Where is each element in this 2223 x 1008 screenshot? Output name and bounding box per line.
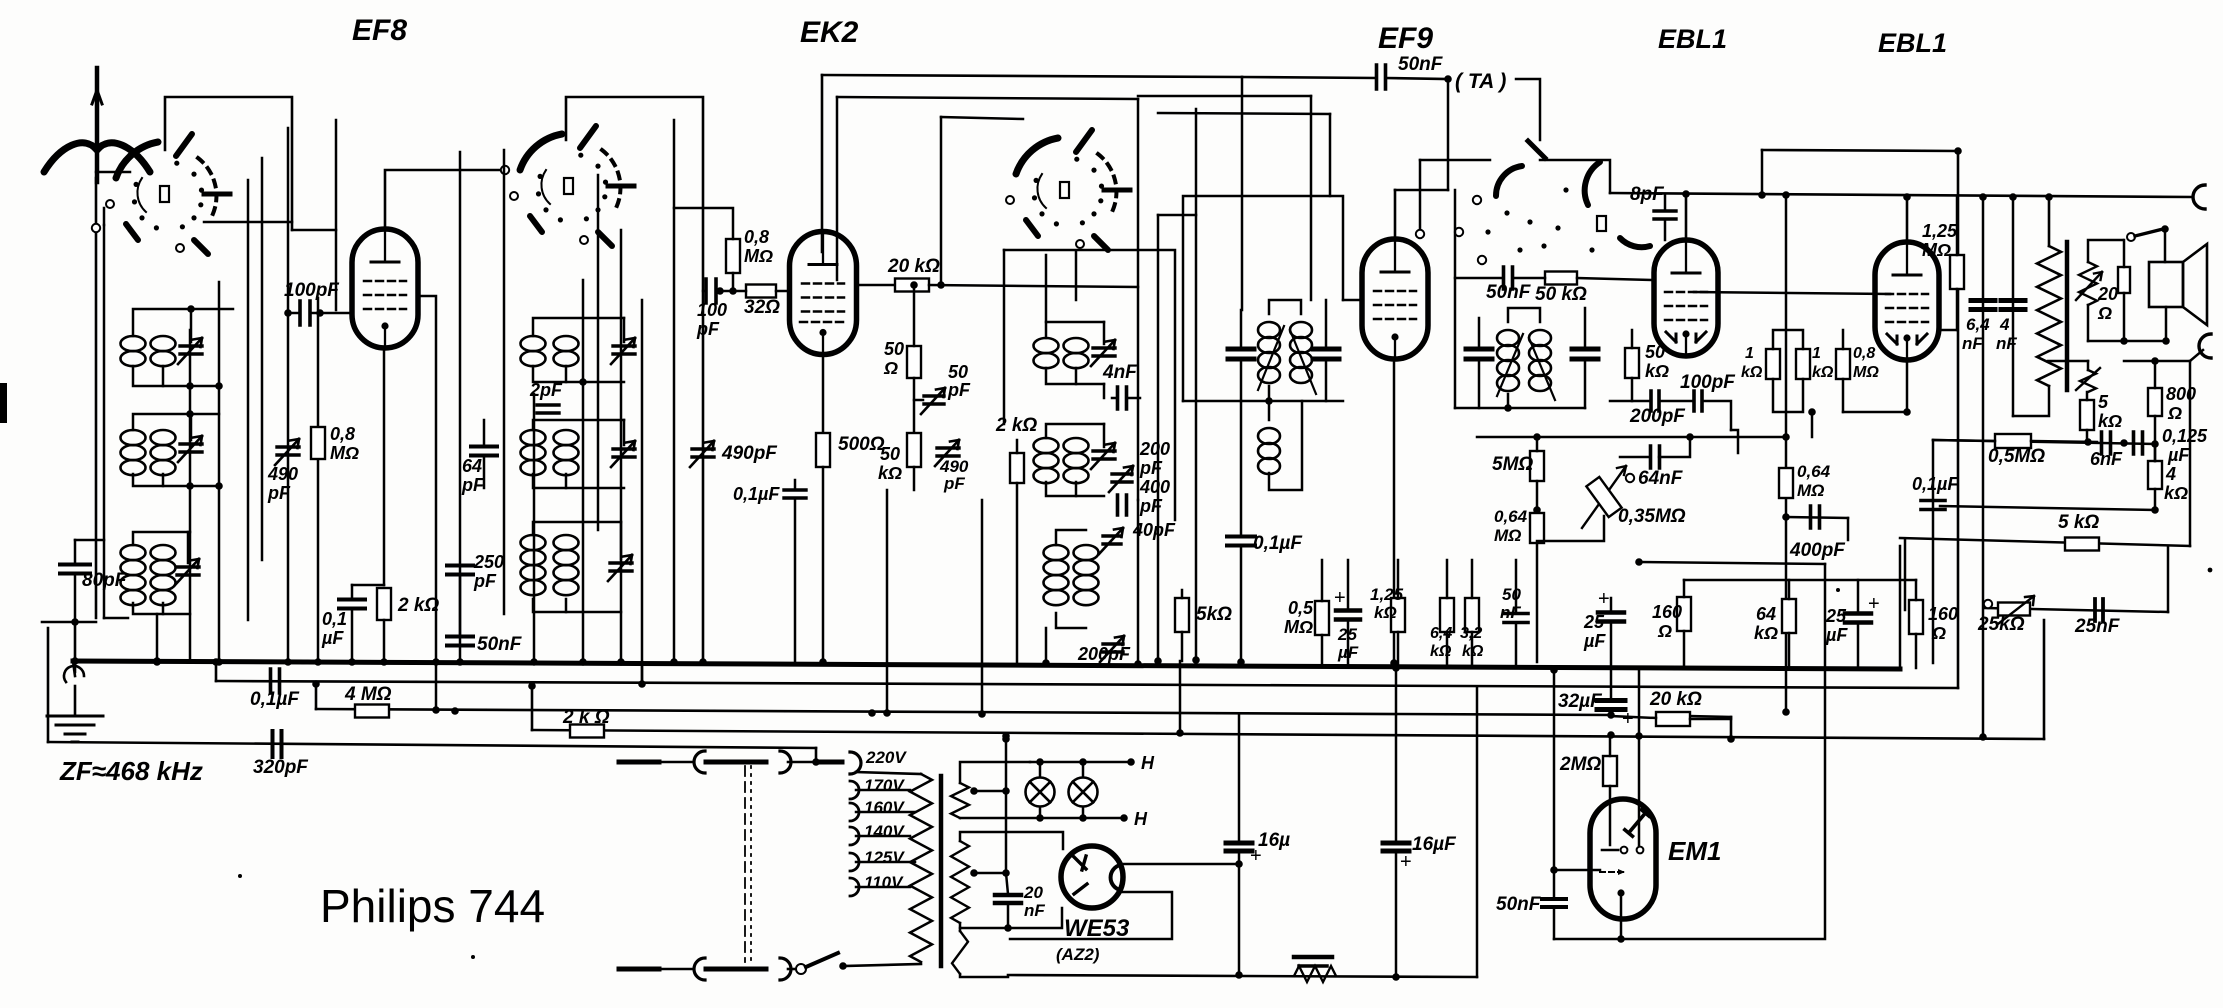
wire v x318 bbox=[317, 298, 320, 662]
junction bus bbox=[215, 658, 223, 666]
wire det line bbox=[1610, 400, 1651, 403]
svg-text:+: + bbox=[1868, 593, 1880, 615]
svg-text:2pF: 2pF bbox=[529, 380, 563, 400]
svg-text:+: + bbox=[1250, 845, 1262, 867]
svg-text:+: + bbox=[1598, 588, 1610, 610]
svg-text:20 kΩ: 20 kΩ bbox=[887, 256, 940, 277]
transformer core main bbox=[939, 776, 944, 966]
IF coil L5b bbox=[554, 430, 579, 445]
capacitor ift3 left bbox=[1466, 349, 1492, 359]
mains upper stub bbox=[619, 760, 659, 765]
wire v1762 bbox=[1761, 150, 1764, 195]
resistor 1kOhm a bbox=[1766, 349, 1780, 379]
svg-text:400: 400 bbox=[1139, 477, 1170, 497]
wire y442 left bbox=[1933, 440, 1995, 441]
junction bus bbox=[153, 658, 161, 666]
trimmer 200pF pad bbox=[1103, 644, 1123, 652]
trimmer C8 bbox=[1093, 451, 1115, 459]
junction railC left bbox=[312, 680, 320, 688]
wire em1 left link bbox=[1554, 869, 1600, 872]
wire v x248 bbox=[247, 180, 250, 620]
svg-text:nF: nF bbox=[1962, 334, 1983, 353]
IF coil L4b bbox=[554, 336, 579, 351]
wire EF9 anode up bbox=[1394, 190, 1397, 239]
wire 100pF right bbox=[311, 312, 352, 315]
svg-text:kΩ: kΩ bbox=[2164, 483, 2188, 503]
wire gb down bbox=[1811, 412, 1814, 437]
wire v2155 seg bbox=[2154, 444, 2157, 461]
wire em1 left v bbox=[1553, 670, 1556, 898]
wire top to 50nF bbox=[1242, 77, 1376, 78]
variable coil ift3 b bbox=[1529, 330, 1551, 346]
wire v1786 bbox=[1785, 194, 1788, 712]
terminal pot bbox=[1984, 600, 1992, 608]
svg-text:80pF: 80pF bbox=[82, 570, 128, 591]
junction y150 1958 bbox=[1954, 147, 1962, 155]
svg-text:kΩ: kΩ bbox=[1374, 603, 1397, 622]
wire row2 bottom bbox=[133, 474, 219, 486]
junction v1983 y737 bbox=[1979, 733, 1987, 741]
antenna bbox=[44, 143, 97, 172]
wire x642 to railB bbox=[641, 662, 644, 684]
resistor WW bbox=[1294, 955, 1332, 960]
wire lamp bots bbox=[1039, 807, 1042, 818]
ground bbox=[47, 716, 103, 742]
junction x1158 bbox=[1154, 657, 1162, 665]
junction railB x645b bbox=[868, 709, 876, 717]
trimmer C4 bbox=[613, 346, 635, 354]
capacitor 25nF bbox=[2095, 599, 2103, 621]
junction tap20 bbox=[1002, 869, 1010, 877]
wire 4nF link bbox=[1103, 384, 1106, 398]
capacitor 25uF a bbox=[1336, 611, 1360, 620]
wire row2 trim lead bbox=[190, 414, 193, 440]
svg-text:0,125: 0,125 bbox=[2162, 426, 2208, 446]
tube EF9 bbox=[1362, 239, 1428, 359]
mains thick link bbox=[818, 760, 842, 765]
IF coil L6a bbox=[521, 535, 546, 550]
svg-text:pF: pF bbox=[461, 475, 485, 495]
trimmer 50pF bbox=[924, 396, 944, 404]
svg-text:pF: pF bbox=[947, 380, 971, 400]
small rect contact EF9 bbox=[1597, 216, 1606, 231]
junction ebl2 cath bbox=[1903, 408, 1911, 416]
band switch S1 bbox=[106, 134, 230, 254]
wire v1933 bbox=[1932, 440, 1935, 663]
single coil below ift2 bbox=[1258, 428, 1280, 444]
wire term bot link bbox=[2190, 350, 2203, 361]
wire ebl2 anode riser bbox=[1906, 197, 1909, 243]
junction row2 bot bbox=[186, 482, 194, 490]
wire sw link bbox=[1420, 159, 1490, 162]
wire 64nF line bbox=[1537, 436, 1786, 439]
EM1 deflector bbox=[1600, 871, 1625, 873]
wire TA right bbox=[1516, 79, 1540, 140]
wire ift3 bv bbox=[1507, 394, 1510, 408]
svg-text:20: 20 bbox=[1023, 883, 1043, 902]
svg-text:4 MΩ: 4 MΩ bbox=[344, 684, 392, 705]
wire v1396 bbox=[1395, 668, 1398, 840]
svg-text:H: H bbox=[1134, 809, 1148, 829]
svg-text:800: 800 bbox=[2166, 384, 2196, 404]
capacitor 320pF bbox=[273, 731, 282, 757]
svg-text:MΩ: MΩ bbox=[1494, 526, 1521, 545]
svg-text:+: + bbox=[1334, 587, 1346, 609]
svg-text:32µF: 32µF bbox=[1558, 691, 1603, 712]
svg-text:µF: µF bbox=[1825, 625, 1848, 645]
rectifier WE53 bbox=[1061, 846, 1123, 908]
capacitor 200pF det bbox=[1651, 391, 1659, 411]
wire v2168 bbox=[2167, 546, 2170, 612]
switch arc TA c bbox=[1620, 238, 1650, 247]
wire v1477 bbox=[1476, 688, 1479, 977]
trimmer 490pF osc a bbox=[692, 449, 714, 457]
wire det drop bbox=[1731, 430, 1738, 453]
resistor 0,5MOhm v bbox=[1315, 601, 1329, 635]
wire s2row1 trim bbox=[623, 318, 626, 342]
svg-text:250: 250 bbox=[473, 552, 504, 572]
wire EF8 cathode bbox=[383, 348, 386, 585]
wire antenna lead bbox=[95, 178, 98, 618]
junction EF9 cath bus bbox=[1390, 659, 1398, 667]
wire stub a bbox=[659, 761, 694, 764]
svg-text:1: 1 bbox=[1745, 345, 1754, 362]
junction bus x674 bbox=[670, 658, 678, 666]
trimmer C3 bbox=[177, 567, 199, 575]
HV winding bbox=[951, 841, 969, 923]
junction 64 top bbox=[1979, 193, 1987, 201]
svg-text:pF: pF bbox=[943, 474, 965, 493]
wire v1983 bbox=[1982, 197, 1985, 735]
transformer core bbox=[2065, 242, 2070, 390]
svg-text:4nF: 4nF bbox=[1102, 362, 1138, 383]
svg-text:4: 4 bbox=[1999, 315, 2010, 334]
capacitor 4nF bbox=[1118, 387, 1127, 409]
svg-text:Ω: Ω bbox=[2167, 403, 2182, 423]
wire 50k bot bbox=[913, 467, 916, 490]
junction gb bbox=[1808, 408, 1816, 416]
capacitor 20nF bbox=[995, 895, 1021, 903]
capacitor 6nF b bbox=[2134, 432, 2143, 454]
svg-text:MΩ: MΩ bbox=[744, 246, 773, 266]
svg-text:Ω: Ω bbox=[1657, 621, 1672, 641]
wire x1140 ext bbox=[1137, 500, 1140, 664]
wire row3 bottom bbox=[133, 603, 190, 614]
wire spk bottom bbox=[2087, 305, 2090, 341]
svg-text:(AZ2): (AZ2) bbox=[1056, 945, 1100, 964]
trimmer C7 bbox=[1093, 348, 1115, 356]
trimmer C1 bbox=[180, 346, 202, 354]
terminal speaker bottom bbox=[2199, 334, 2211, 358]
capacitor 400pF osc bbox=[1118, 495, 1127, 515]
wire v x190 bbox=[189, 330, 192, 662]
svg-text:50: 50 bbox=[884, 339, 904, 359]
resistor 50kOhm ebl bbox=[1545, 272, 1577, 285]
wire EK2 screen right bbox=[857, 284, 897, 287]
wire heater bottom bbox=[960, 817, 1120, 820]
junction HV mid bbox=[970, 869, 978, 877]
junction 5M bbox=[1533, 506, 1541, 514]
svg-text:5 kΩ: 5 kΩ bbox=[2058, 512, 2099, 533]
capacitor 400pF right bbox=[1811, 506, 1820, 528]
resistor 50kOhm EK2 bbox=[907, 433, 921, 467]
svg-text:50: 50 bbox=[948, 362, 968, 382]
junction v1786 railC bbox=[1782, 708, 1790, 716]
wire 2M leads bbox=[1609, 737, 1612, 756]
capacitor 6,4nF bbox=[1971, 301, 1995, 310]
mains lower stub bbox=[619, 967, 659, 972]
wire link y222 bbox=[204, 221, 292, 224]
band switch S2 bbox=[510, 126, 634, 246]
resistor 800Ohm bbox=[2148, 388, 2162, 416]
switch terminals bbox=[1473, 196, 1481, 204]
lamp Lb bbox=[1069, 778, 1098, 807]
trimmer 490pF S1 bbox=[277, 447, 299, 455]
svg-text:5: 5 bbox=[2098, 392, 2109, 412]
resistor 5kOhm tone bbox=[2080, 400, 2094, 430]
terminal speaker top bbox=[2193, 185, 2205, 209]
wire v1239 low bbox=[1238, 852, 1241, 975]
trimmer C5 bbox=[613, 449, 635, 457]
wire link y230 bbox=[292, 229, 336, 232]
capacitor 250pF bbox=[447, 566, 473, 575]
primary winding bbox=[910, 774, 932, 962]
IF coil L1a bbox=[121, 336, 146, 351]
junction railD x bbox=[1176, 729, 1184, 737]
wire osc link y117 bbox=[941, 117, 1023, 119]
junction 100pF bbox=[284, 309, 292, 317]
wire 5kif leads bbox=[1181, 590, 1184, 598]
tap arc 220V bbox=[850, 752, 861, 774]
trimmer C2 bbox=[180, 444, 202, 452]
junction sw mains bbox=[839, 962, 847, 970]
svg-text:1,25: 1,25 bbox=[1922, 221, 1958, 241]
wire rail D left riser bbox=[531, 686, 534, 730]
resistor 0,5MOhm bbox=[1995, 434, 2031, 448]
capacitor ift2 right bbox=[1313, 349, 1339, 359]
wire 400pF line bbox=[1786, 517, 1848, 518]
resistor 0,64MOhm b bbox=[1779, 468, 1793, 498]
junction row2 bot b bbox=[215, 482, 223, 490]
wire HV top bbox=[960, 832, 1063, 849]
wire v x336 bbox=[335, 120, 338, 310]
svg-text:kΩ: kΩ bbox=[1741, 364, 1763, 381]
svg-text:5MΩ: 5MΩ bbox=[1492, 454, 1533, 475]
svg-text:0,1µF: 0,1µF bbox=[1253, 533, 1303, 554]
wire v x288 bbox=[287, 128, 290, 662]
svg-text:EBL1: EBL1 bbox=[1658, 24, 1727, 54]
svg-text:100pF: 100pF bbox=[284, 280, 340, 301]
wire WE53 cathode out bbox=[1123, 863, 1239, 866]
terminal antenna coupling bbox=[92, 224, 100, 232]
junction railB x645 bbox=[638, 680, 646, 688]
resistor 6,4kOhm bbox=[1440, 598, 1454, 632]
mains switch bbox=[796, 964, 806, 974]
capacitor 50nF sec2 bbox=[447, 637, 473, 646]
svg-text:0,5: 0,5 bbox=[1288, 598, 1314, 618]
wire cath split bbox=[352, 584, 384, 587]
resistor 5kOhm h bbox=[2065, 538, 2099, 551]
wire tap125 bbox=[856, 861, 915, 864]
svg-text:Ω: Ω bbox=[1931, 623, 1946, 643]
wire rail C left riser bbox=[315, 684, 318, 709]
svg-text:160: 160 bbox=[1928, 604, 1958, 624]
junction railB left bbox=[212, 658, 220, 666]
wire vert x1140 bbox=[1137, 99, 1140, 500]
wire spk sw bbox=[2127, 233, 2135, 241]
svg-text:pF: pF bbox=[1139, 458, 1163, 478]
junction bus x1140 bbox=[1134, 660, 1142, 668]
capacitor 50nF mid bbox=[1504, 614, 1528, 623]
wire switch link y172 bbox=[96, 171, 130, 174]
junction bus left end bbox=[71, 657, 79, 665]
wire y193 to EF9 top bbox=[1540, 160, 1610, 193]
wire s2row2 bot b bbox=[565, 474, 568, 488]
svg-text:1: 1 bbox=[1812, 345, 1821, 362]
wire LT top link bbox=[959, 928, 962, 931]
wire 5k tone leads bbox=[2086, 392, 2089, 400]
svg-text:MΩ: MΩ bbox=[1922, 240, 1951, 260]
capacitor 16uF b bbox=[1383, 843, 1409, 851]
junction bus x703 bbox=[699, 658, 707, 666]
junction v1006 d bbox=[1002, 735, 1010, 743]
wire s2row1 bot bbox=[533, 366, 624, 382]
junction row2 top bbox=[186, 410, 194, 418]
junction row3 bus bbox=[153, 657, 161, 665]
speck bbox=[471, 955, 475, 959]
IF coil L7b bbox=[1064, 338, 1089, 353]
wire v x674 bbox=[673, 120, 676, 662]
wire ift2 frame bbox=[1183, 196, 1343, 401]
junction em1 lv bbox=[1550, 666, 1558, 674]
IF coil L2b bbox=[151, 430, 176, 445]
resistor 160Ohm a bbox=[1677, 597, 1691, 631]
wire 50Ohm bottom bbox=[913, 378, 916, 432]
wire pot link bbox=[1537, 516, 1604, 541]
resistor 2kOhm EF8 bbox=[377, 588, 391, 620]
wire EF8 anode up bbox=[385, 170, 505, 229]
capacitor 16uF a bbox=[1226, 843, 1252, 851]
wire oscrow1 top bbox=[1046, 322, 1104, 338]
wire rail E left riser bbox=[47, 628, 50, 742]
svg-text:100: 100 bbox=[697, 300, 727, 320]
wire 64pF top bbox=[483, 420, 486, 446]
wire stub b bbox=[788, 761, 816, 764]
resistor 20kOhm b bbox=[1656, 712, 1690, 726]
wire vert x982 bbox=[981, 500, 984, 714]
resistor 0,64MOhm a bbox=[1530, 513, 1544, 543]
capacitor 25uF c bbox=[1845, 614, 1871, 623]
svg-text:50: 50 bbox=[1502, 585, 1521, 604]
junction 2k bus bbox=[380, 658, 388, 666]
svg-text:MΩ: MΩ bbox=[330, 443, 359, 463]
insulation dashes bbox=[744, 766, 746, 962]
wire HV tap bbox=[974, 872, 1006, 875]
speaker bbox=[2149, 262, 2183, 307]
junction bus x621 bbox=[617, 658, 625, 666]
junction bus x534 bbox=[530, 658, 538, 666]
wire rail D right riser bbox=[2043, 620, 2046, 739]
wire row3 top bbox=[133, 532, 190, 545]
trimmer 490pF b bbox=[937, 448, 959, 456]
wire vert x1196 bbox=[1195, 109, 1198, 660]
wire rail C bbox=[316, 709, 1610, 715]
svg-text:25nF: 25nF bbox=[2074, 616, 2121, 637]
wire x1639 seg bbox=[1638, 670, 1641, 736]
wire 08M bot bbox=[732, 273, 735, 291]
wire 50kv leads bbox=[1631, 330, 1634, 348]
capacitor 0,1uF EF8 bbox=[339, 600, 365, 609]
junction v1762 bbox=[1758, 191, 1766, 199]
svg-text:nF: nF bbox=[1500, 603, 1521, 622]
svg-text:pF: pF bbox=[267, 483, 291, 503]
wire s2row3 bot b bbox=[565, 599, 568, 612]
junction row1 bot b bbox=[215, 382, 223, 390]
svg-text:H: H bbox=[1141, 753, 1155, 773]
junction y437 bbox=[1533, 433, 1541, 441]
capacitor 50nF em1 bbox=[1542, 899, 1566, 907]
wire tap110 bbox=[856, 886, 910, 889]
svg-text:320pF: 320pF bbox=[253, 757, 309, 778]
wire antenna terminal row bbox=[42, 621, 96, 624]
variable coil ift2 b bbox=[1290, 322, 1312, 338]
junction grid EK2 a bbox=[716, 287, 724, 295]
wire vert x1004 bbox=[1003, 250, 1006, 424]
wire row2 top rail bbox=[1684, 579, 1916, 582]
wire y437 link bbox=[1477, 436, 1537, 439]
svg-text:170V: 170V bbox=[864, 776, 905, 795]
resistor 2MOhm bbox=[1603, 756, 1617, 786]
junction ift3 bbox=[1504, 404, 1512, 412]
svg-text:2 k Ω: 2 k Ω bbox=[562, 707, 610, 728]
wire 1k leads bbox=[1773, 330, 1803, 349]
wire s2row3 top bbox=[533, 522, 621, 535]
wire ift3 coil tops bbox=[1508, 308, 1540, 322]
wire hook to ground bbox=[74, 686, 77, 714]
wire tap140 bbox=[856, 835, 910, 838]
svg-text:6,4: 6,4 bbox=[1966, 315, 1990, 334]
wire top rail 1 bbox=[822, 75, 1242, 77]
svg-text:kΩ: kΩ bbox=[1430, 643, 1452, 660]
svg-text:0,8: 0,8 bbox=[744, 227, 769, 247]
svg-text:200pF: 200pF bbox=[1077, 644, 1131, 664]
wire box y669 bbox=[1654, 667, 1900, 669]
wire row3 to bus bbox=[156, 614, 159, 661]
wire tap170 bbox=[856, 789, 910, 792]
junction screen x941 bbox=[937, 281, 945, 289]
wire 80pF link bbox=[75, 539, 104, 542]
capacitor 4nF out bbox=[2001, 301, 2025, 310]
wire v x642 bbox=[641, 300, 644, 680]
junction ebl1 anode bbox=[1682, 190, 1690, 198]
wire otp bottom bbox=[2013, 386, 2049, 416]
wire spk legs bbox=[2165, 307, 2168, 341]
wire v x621 bbox=[620, 230, 623, 662]
svg-text:0,5MΩ: 0,5MΩ bbox=[1988, 446, 2045, 467]
wire sw drop bbox=[2164, 229, 2167, 262]
IF coil L9a bbox=[1044, 545, 1069, 560]
IF coil L3a bbox=[121, 545, 146, 560]
svg-text:kΩ: kΩ bbox=[878, 463, 902, 483]
wire otp top bbox=[2048, 197, 2051, 246]
tube EBL1 no1 bbox=[1654, 240, 1718, 356]
wire 20nF v bbox=[1006, 873, 1008, 894]
wire sw to winding bbox=[843, 964, 921, 966]
wire ift3 l v bbox=[1478, 318, 1481, 349]
wire row1 b bottom bbox=[162, 366, 165, 386]
wire frame v x104 bbox=[103, 225, 106, 618]
svg-text:400pF: 400pF bbox=[1789, 540, 1846, 561]
